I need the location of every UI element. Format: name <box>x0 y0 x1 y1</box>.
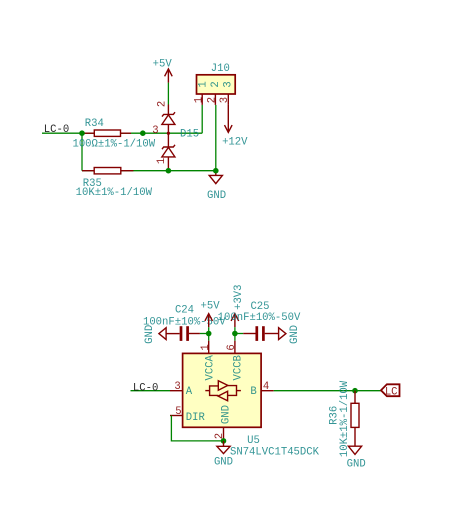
junction R34 right <box>140 130 146 136</box>
svg-text:+12V: +12V <box>222 136 248 148</box>
wire J10 pin1 vertical <box>201 105 203 133</box>
wire DIR loop to GND junction <box>171 416 223 441</box>
diode D15 (dual zener clamp) <box>162 105 175 171</box>
svg-text:3: 3 <box>152 125 158 137</box>
svg-text:1: 1 <box>156 158 168 164</box>
U5 pin 2 stub <box>223 427 225 441</box>
wire net LC-0 main horizontal <box>42 132 202 134</box>
power symbol +3V3 <box>231 314 239 328</box>
svg-text:1: 1 <box>194 97 206 103</box>
svg-text:C24: C24 <box>175 305 194 317</box>
svg-text:D15: D15 <box>180 129 199 141</box>
power symbol +5V (top) <box>165 69 173 83</box>
svg-text:2: 2 <box>206 97 218 103</box>
U5 pin B stub <box>261 390 274 392</box>
svg-text:GND: GND <box>207 190 226 202</box>
junction B / R36 <box>352 388 358 394</box>
wire junction to C25 <box>235 333 243 335</box>
svg-text:A: A <box>186 386 193 398</box>
wire C24 to +5V junction <box>200 333 209 335</box>
svg-text:+5V: +5V <box>153 59 173 71</box>
junction C24/+5V/pin1 <box>206 331 212 337</box>
junction D15 anode / GND rail <box>166 168 172 174</box>
svg-text:VCCA: VCCA <box>204 354 216 380</box>
power symbol +12V <box>225 105 233 132</box>
svg-text:10K±1%-1/10W: 10K±1%-1/10W <box>76 187 153 199</box>
power symbol GND (under R36) <box>348 446 361 454</box>
connector J10 <box>197 75 236 94</box>
power symbol GND (top) <box>209 171 222 184</box>
wire net LC-0 to pin A <box>131 390 171 392</box>
svg-text:VCCB: VCCB <box>232 355 244 380</box>
svg-text:2: 2 <box>210 81 222 87</box>
svg-text:GND: GND <box>289 325 301 344</box>
svg-text:DIR: DIR <box>186 412 206 424</box>
wire vertical LC-0 down to R35 <box>81 133 83 171</box>
svg-text:3: 3 <box>223 81 235 87</box>
svg-text:100Ω±1%-1/10W: 100Ω±1%-1/10W <box>72 139 155 151</box>
svg-text:GND: GND <box>220 405 232 424</box>
resistor R34 <box>82 130 131 136</box>
wire +3V3 to U5 pin6 <box>234 327 236 341</box>
svg-text:5: 5 <box>175 406 181 418</box>
svg-text:GND: GND <box>347 458 366 470</box>
svg-text:2: 2 <box>157 101 169 107</box>
svg-text:U5: U5 <box>247 435 260 447</box>
junction LC-0 / R35 <box>79 130 85 136</box>
junction U5 pin2 / DIR <box>221 438 227 444</box>
wire bottom GND horizontal <box>82 170 216 172</box>
power symbol GND (right of C25) <box>279 328 286 340</box>
svg-text:GND: GND <box>144 325 156 344</box>
svg-text:6: 6 <box>226 344 238 350</box>
global label LC <box>381 384 400 398</box>
svg-text:100nF±10%-50V: 100nF±10%-50V <box>218 312 301 324</box>
svg-text:4: 4 <box>263 381 269 393</box>
U5 pin 6 stub <box>234 341 236 354</box>
svg-text:3: 3 <box>219 97 231 103</box>
junction C25/+3V3/pin6 <box>232 331 238 337</box>
U5 pin A stub <box>170 390 183 392</box>
wire J10 pin2 vertical to GND rail <box>215 105 217 171</box>
J10 pin stubs <box>202 94 228 105</box>
svg-text:1: 1 <box>200 344 212 350</box>
U5 pin DIR stub <box>170 415 183 417</box>
svg-text:+3V3: +3V3 <box>233 284 245 309</box>
wire +5V junction to U5 pin1 <box>208 327 210 341</box>
svg-text:LC: LC <box>385 387 398 399</box>
U5 pin 1 stub <box>208 341 210 354</box>
svg-text:J10: J10 <box>211 63 230 75</box>
capacitor C24 <box>181 326 200 341</box>
power symbol +5V (bottom) <box>205 314 213 328</box>
power symbol GND (under U5) <box>217 441 230 454</box>
svg-text:+5V: +5V <box>201 300 221 312</box>
D15 pin 3 tap dot <box>167 132 170 135</box>
wire +5V to D15 <box>167 83 169 105</box>
wire pin B to LC label <box>274 390 381 392</box>
resistor R35 <box>82 168 133 174</box>
svg-text:LC-0: LC-0 <box>44 124 69 136</box>
svg-text:B: B <box>250 386 256 398</box>
resistor R36 <box>351 391 359 447</box>
svg-text:R34: R34 <box>85 118 104 130</box>
capacitor C25 <box>243 326 278 341</box>
svg-text:1: 1 <box>197 81 209 87</box>
svg-text:3: 3 <box>174 381 180 393</box>
svg-text:LC-0: LC-0 <box>133 382 158 394</box>
power symbol GND (left of C24) <box>159 328 180 340</box>
junction J10 pin2 / GND rail <box>213 168 219 174</box>
U5 buffer glyph <box>205 381 241 401</box>
svg-text:SN74LVC1T45DCK: SN74LVC1T45DCK <box>230 447 320 459</box>
IC U5 body <box>183 353 262 427</box>
